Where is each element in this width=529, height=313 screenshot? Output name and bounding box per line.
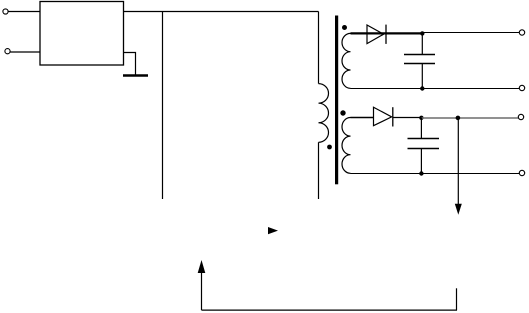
node V1+ junction dot — [420, 31, 424, 35]
node V2- junction dot — [419, 171, 423, 175]
node V2+ junction dot — [419, 116, 423, 120]
diode D1 — [367, 25, 386, 44]
node V1- junction dot — [420, 86, 424, 90]
ground — [123, 74, 148, 77]
wire D2 to node V2+ — [393, 117, 422, 119]
wire primary bottom lead (dangling) — [318, 142, 320, 199]
feedback return arrow (up) — [198, 260, 206, 310]
wire feedback bottom run — [202, 309, 458, 311]
wire S2 bottom rail — [351, 173, 520, 175]
secondary S2 polarity dot — [340, 110, 345, 115]
input terminal J2 — [5, 49, 10, 54]
wire J1 to U1 — [8, 11, 40, 13]
wire U1 to ground — [124, 53, 136, 75]
capacitor C1 — [404, 33, 435, 88]
wire S2 to diode D2 — [351, 117, 374, 119]
output terminal J6 — [519, 170, 524, 175]
wire U1 output to primary (top rail) — [124, 11, 319, 13]
wire switch-node vertical (dangling) — [162, 12, 164, 200]
wire V1+ to terminal — [422, 32, 519, 34]
flow marker arrowhead — [268, 227, 278, 234]
transformer T1 secondary winding S1 — [342, 33, 351, 88]
wire feedback right stub — [456, 288, 458, 310]
output terminal J5 — [518, 114, 523, 119]
wire primary top lead — [318, 12, 320, 84]
capacitor C2 — [408, 118, 440, 174]
node feedback tap junction dot — [456, 116, 461, 121]
output terminal J3 — [519, 30, 524, 35]
wire V2+ rail (light) — [421, 117, 518, 119]
transformer T1 primary winding — [319, 84, 329, 143]
input terminal J1 — [3, 9, 8, 14]
secondary S1 polarity dot — [342, 25, 347, 30]
diode D2 — [374, 107, 393, 126]
transformer T1 secondary winding S2 — [342, 118, 351, 174]
primary polarity dot — [327, 145, 332, 150]
control IC U1 (box) — [40, 2, 124, 66]
wire J2 to U1 — [10, 51, 40, 53]
wire S1 bottom rail — [351, 88, 520, 90]
output terminal J4 — [519, 85, 524, 90]
feedback sense arrow (down) — [455, 118, 462, 215]
wire S1 top rail (thick) — [351, 32, 423, 34]
transformer T1 core — [335, 16, 338, 185]
